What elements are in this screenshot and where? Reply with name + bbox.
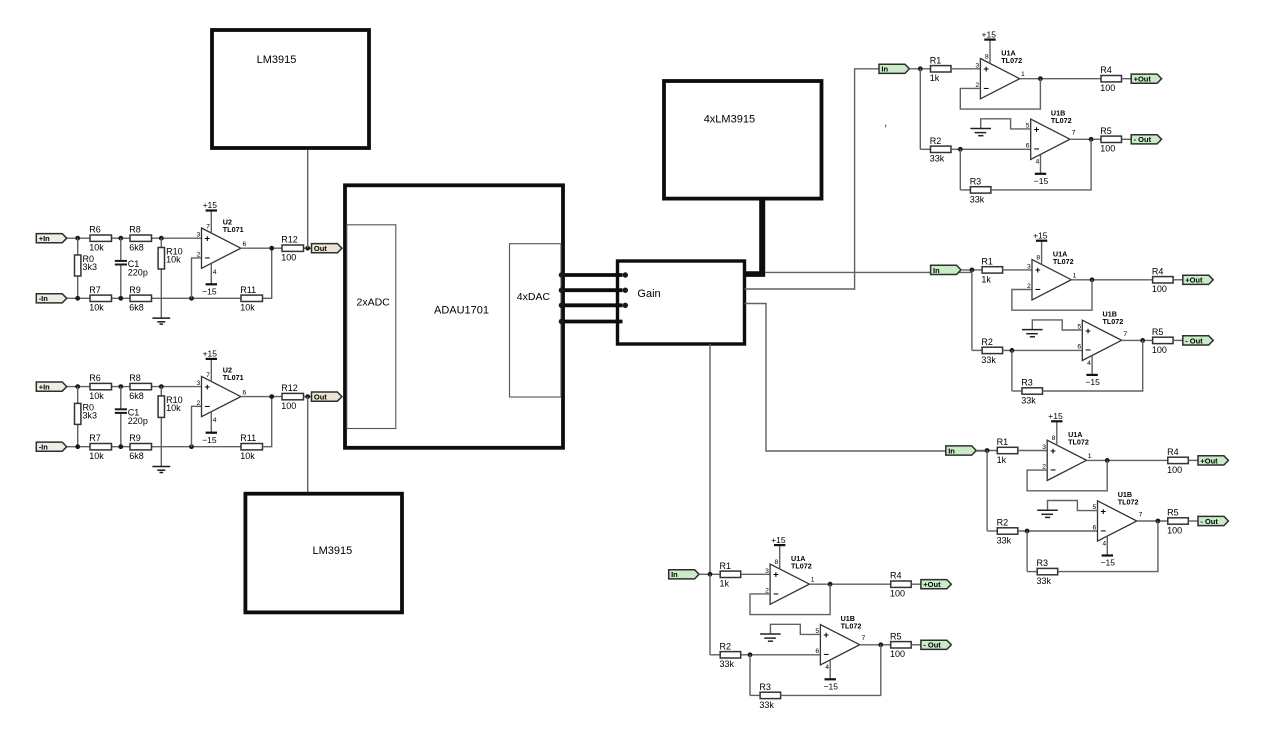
ground (output stage 2) bbox=[1032, 320, 1082, 330]
wire feedback (input stage 1) bbox=[263, 248, 272, 298]
svg-text:+15: +15 bbox=[1048, 411, 1063, 421]
wire DAC bus 4 bbox=[561, 320, 622, 324]
svg-text:3k3: 3k3 bbox=[83, 411, 98, 421]
svg-text:+: + bbox=[1085, 326, 1091, 337]
wire R4 to +Out (output stage 2) bbox=[1173, 279, 1183, 281]
svg-text:- Out: - Out bbox=[923, 641, 941, 650]
svg-text:33k: 33k bbox=[981, 355, 996, 365]
resistor R1 1k (output stage 4) bbox=[720, 571, 741, 577]
svg-text:R11: R11 bbox=[240, 285, 256, 295]
svg-text:-In: -In bbox=[39, 443, 49, 452]
svg-text:In: In bbox=[881, 65, 888, 74]
svg-text:TL072: TL072 bbox=[1118, 498, 1139, 507]
svg-text:3: 3 bbox=[975, 62, 979, 69]
pin 4 -15 supply (output stage 2) bbox=[1091, 356, 1093, 375]
block LM3915 (top) bbox=[212, 30, 369, 148]
svg-text:7: 7 bbox=[1123, 331, 1127, 338]
wire U1A output (output stage 4) bbox=[809, 583, 890, 585]
node R8-R10 junction (input stage 2) bbox=[159, 384, 164, 389]
svg-text:7: 7 bbox=[1139, 511, 1143, 518]
wire R1 to pin3 (output stage 3) bbox=[1018, 450, 1047, 452]
wire Gain to stage 2 In bbox=[765, 271, 972, 273]
wire U1A output (output stage 3) bbox=[1087, 459, 1168, 461]
node U1B output junction (output stage 4) bbox=[878, 642, 883, 647]
node feedback junction (input stage 2) bbox=[189, 444, 194, 449]
resistor R6 10k (input stage 2) bbox=[90, 383, 112, 389]
svg-text:In: In bbox=[948, 446, 955, 455]
svg-text:+15: +15 bbox=[982, 29, 997, 39]
pin 8 +15 supply (output stage 4) bbox=[779, 545, 781, 569]
svg-text:TL072: TL072 bbox=[1001, 56, 1022, 65]
wire LM3915 bottom link bbox=[307, 397, 309, 494]
wire In to R1 (output stage 2) bbox=[961, 269, 982, 271]
node R2 junction (output stage 1) bbox=[958, 147, 963, 152]
svg-text:−: − bbox=[1050, 465, 1056, 476]
svg-text:1: 1 bbox=[811, 577, 815, 584]
wire R3 feedback (output stage 4) bbox=[781, 645, 881, 696]
svg-text:R6: R6 bbox=[89, 373, 101, 383]
svg-text:−: − bbox=[1085, 345, 1091, 356]
svg-text:10k: 10k bbox=[89, 391, 104, 401]
wire R5 to -Out (output stage 1) bbox=[1122, 138, 1132, 140]
resistor R6 10k (input stage 1) bbox=[90, 235, 112, 241]
svg-text:R5: R5 bbox=[1167, 508, 1179, 518]
svg-text:−15: −15 bbox=[1085, 377, 1100, 387]
svg-text:−: − bbox=[823, 650, 829, 661]
wire R4 to +Out (output stage 4) bbox=[911, 583, 921, 585]
svg-text:+: + bbox=[205, 382, 211, 393]
pin 8 +15 supply (output stage 3) bbox=[1056, 421, 1058, 445]
svg-text:In: In bbox=[933, 266, 940, 275]
resistor R10 10k (input stage 2) bbox=[160, 387, 162, 396]
block 4xLM3915 bbox=[664, 81, 822, 199]
wire In to R2 (output stage 1) bbox=[919, 69, 921, 150]
svg-text:+: + bbox=[1050, 446, 1056, 457]
svg-text:+15: +15 bbox=[771, 535, 786, 545]
wire inverting input (input stage 2) bbox=[192, 406, 202, 446]
pin 4 -15 supply (output stage 1) bbox=[1040, 155, 1042, 174]
connector In (output stage 1) bbox=[879, 64, 909, 73]
svg-text:33k: 33k bbox=[930, 154, 945, 164]
wire R1 to pin3 (output stage 2) bbox=[1003, 269, 1032, 271]
svg-text:3: 3 bbox=[197, 232, 201, 239]
connector Out (input stage 1) bbox=[312, 244, 342, 253]
resistor R0 3k3 (input stage 1) bbox=[77, 238, 79, 255]
pin 7 +15 supply (input stage 2) bbox=[210, 359, 212, 382]
wire DAC bus 1 bbox=[561, 273, 622, 277]
node R2 junction (output stage 3) bbox=[1025, 529, 1030, 534]
connector -In (input stage 2) bbox=[36, 442, 66, 451]
wire R3 feedback (output stage 2) bbox=[1043, 340, 1143, 391]
svg-text:Out: Out bbox=[314, 244, 327, 253]
node +In junction (input stage 1) bbox=[75, 236, 80, 241]
node In junction (output stage 4) bbox=[708, 572, 713, 577]
wire U1A feedback (output stage 2) bbox=[1012, 280, 1092, 310]
svg-text:R7: R7 bbox=[89, 285, 101, 295]
op-amp U1B TL072 (output stage 1) bbox=[1031, 119, 1070, 159]
pin 4 -15 supply (input stage 2) bbox=[210, 412, 212, 433]
wire R5 to -Out (output stage 4) bbox=[911, 644, 921, 646]
resistor R11 10k (input stage 1) bbox=[241, 295, 263, 301]
resistor R10 10k (input stage 1) bbox=[160, 238, 162, 247]
wire inverting input (input stage 1) bbox=[192, 258, 202, 298]
wire output (input stage 1) bbox=[241, 247, 282, 249]
wire U1A output (output stage 1) bbox=[1020, 78, 1101, 80]
svg-text:100: 100 bbox=[281, 401, 296, 411]
resistor R7 10k (input stage 1) bbox=[90, 295, 112, 301]
svg-text:+: + bbox=[773, 570, 779, 581]
svg-text:R1: R1 bbox=[930, 55, 942, 65]
op-amp U2 TL071 (input stage 1) bbox=[202, 228, 241, 268]
svg-text:+: + bbox=[205, 234, 211, 245]
svg-text:R2: R2 bbox=[720, 641, 732, 651]
node R6-R8 junction (input stage 2) bbox=[118, 384, 123, 389]
node In junction (output stage 1) bbox=[918, 66, 923, 71]
svg-text:R4: R4 bbox=[1100, 65, 1112, 75]
svg-text:3: 3 bbox=[1027, 263, 1031, 270]
svg-text:TL071: TL071 bbox=[223, 373, 244, 382]
wire R2 to pin6 (output stage 1) bbox=[951, 148, 1031, 150]
svg-text:33k: 33k bbox=[759, 700, 774, 710]
svg-text:6: 6 bbox=[815, 648, 819, 655]
svg-text:+: + bbox=[823, 630, 829, 641]
wire -In rail (input stage 2) bbox=[66, 446, 90, 448]
wire In to R1 (output stage 1) bbox=[909, 68, 930, 70]
svg-text:−: − bbox=[773, 589, 779, 600]
connector In (output stage 2) bbox=[931, 265, 961, 274]
svg-text:LM3915: LM3915 bbox=[313, 545, 353, 557]
pin 8 +15 supply (output stage 1) bbox=[989, 40, 991, 64]
resistor R5 100 (output stage 3) bbox=[1168, 518, 1189, 524]
wire Gain to stage 3 In bbox=[745, 304, 988, 452]
wire U1A feedback (output stage 1) bbox=[960, 79, 1040, 109]
resistor R11 10k (input stage 2) bbox=[241, 444, 263, 450]
svg-text:R1: R1 bbox=[997, 437, 1009, 447]
connector -In (input stage 1) bbox=[36, 294, 66, 303]
svg-text:−15: −15 bbox=[1034, 176, 1049, 186]
pin 8 +15 supply (output stage 2) bbox=[1041, 241, 1043, 265]
wire R2 to R3 (output stage 3) bbox=[1026, 531, 1028, 572]
resistor R2 33k (output stage 1) bbox=[920, 148, 930, 150]
svg-text:R2: R2 bbox=[981, 337, 993, 347]
ground (output stage 1) bbox=[981, 119, 1031, 129]
svg-text:6k8: 6k8 bbox=[129, 391, 144, 401]
svg-text:3: 3 bbox=[197, 380, 201, 387]
svg-text:7: 7 bbox=[206, 372, 210, 379]
svg-text:100: 100 bbox=[890, 589, 905, 599]
wire R1 to pin3 (output stage 4) bbox=[741, 573, 770, 575]
node R8-R10 junction (input stage 1) bbox=[159, 236, 164, 241]
svg-text:+Out: +Out bbox=[1134, 75, 1152, 84]
wire Gain to stage 1 In bbox=[745, 69, 882, 289]
pin 4 -15 supply (output stage 3) bbox=[1106, 536, 1108, 555]
resistor R12 100 (input stage 2) bbox=[282, 393, 304, 399]
svg-text:100: 100 bbox=[1152, 345, 1167, 355]
svg-text:TL072: TL072 bbox=[1068, 438, 1089, 447]
svg-text:4: 4 bbox=[825, 664, 829, 671]
svg-text:+In: +In bbox=[39, 234, 50, 243]
node In junction (output stage 2) bbox=[970, 268, 975, 273]
wire U1B output (output stage 1) bbox=[1070, 138, 1101, 140]
svg-text:+: + bbox=[1034, 125, 1040, 136]
resistor R3 33k (output stage 2) bbox=[1022, 388, 1043, 394]
wire output (input stage 2) bbox=[241, 396, 282, 398]
svg-text:R8: R8 bbox=[129, 225, 141, 235]
svg-text:TL072: TL072 bbox=[1103, 317, 1124, 326]
svg-text:In: In bbox=[671, 570, 678, 579]
svg-text:5: 5 bbox=[1026, 122, 1030, 129]
svg-text:R3: R3 bbox=[1021, 378, 1033, 388]
resistor R5 100 (output stage 4) bbox=[891, 642, 912, 648]
connector Out (input stage 2) bbox=[312, 392, 342, 401]
wire R4 to +Out (output stage 3) bbox=[1188, 459, 1198, 461]
svg-text:10k: 10k bbox=[89, 303, 104, 313]
svg-text:100: 100 bbox=[1100, 144, 1115, 154]
svg-text:4xDAC: 4xDAC bbox=[517, 291, 551, 303]
resistor R4 100 (output stage 4) bbox=[891, 581, 912, 587]
resistor R2 33k (output stage 4) bbox=[710, 654, 720, 656]
wire R3 feedback (output stage 1) bbox=[991, 139, 1091, 190]
svg-text:ADAU1701: ADAU1701 bbox=[434, 305, 489, 317]
svg-text:+15: +15 bbox=[203, 348, 218, 358]
ground (output stage 3) bbox=[1048, 501, 1098, 511]
node output junction (input stage 2) bbox=[269, 394, 274, 399]
svg-text:R12: R12 bbox=[281, 383, 298, 393]
svg-text:8: 8 bbox=[1052, 435, 1056, 442]
wire R2 to pin6 (output stage 4) bbox=[741, 654, 821, 656]
svg-text:R3: R3 bbox=[970, 176, 982, 186]
wire U1B output (output stage 4) bbox=[860, 644, 891, 646]
svg-text:−: − bbox=[205, 401, 211, 412]
svg-text:+Out: +Out bbox=[1185, 276, 1203, 285]
svg-text:R1: R1 bbox=[981, 256, 993, 266]
node Out junction (input stage 1) bbox=[305, 246, 310, 251]
resistor R1 1k (output stage 3) bbox=[997, 447, 1018, 453]
connector +Out (output stage 4) bbox=[921, 580, 951, 589]
capacitor C1 220p (input stage 2) bbox=[120, 387, 122, 409]
wire -In rail (input stage 1) bbox=[66, 297, 90, 299]
resistor R2 33k (output stage 2) bbox=[972, 349, 982, 351]
svg-text:100: 100 bbox=[1100, 83, 1115, 93]
wire +In rail (input stage 2) bbox=[66, 386, 90, 388]
wire R5 to -Out (output stage 3) bbox=[1188, 520, 1198, 522]
svg-text:220p: 220p bbox=[128, 416, 148, 426]
connector +Out (output stage 3) bbox=[1198, 456, 1228, 465]
wire R2 to R3 (output stage 1) bbox=[959, 149, 961, 190]
wire DAC bus 2 bbox=[561, 288, 622, 292]
node -In junction (input stage 2) bbox=[75, 444, 80, 449]
svg-text:−: − bbox=[1034, 144, 1040, 155]
svg-text:10k: 10k bbox=[89, 451, 104, 461]
node Out junction (input stage 2) bbox=[305, 394, 310, 399]
svg-text:5: 5 bbox=[815, 628, 819, 635]
node R2 junction (output stage 4) bbox=[748, 652, 753, 657]
svg-text:33k: 33k bbox=[970, 194, 985, 204]
svg-text:6k8: 6k8 bbox=[129, 243, 144, 253]
node U1B output junction (output stage 1) bbox=[1089, 137, 1094, 142]
svg-text:TL072: TL072 bbox=[841, 621, 862, 630]
node U1A output junction (output stage 1) bbox=[1038, 76, 1043, 81]
svg-text:−15: −15 bbox=[824, 681, 839, 691]
svg-text:TL071: TL071 bbox=[223, 225, 244, 234]
node U1B output junction (output stage 3) bbox=[1156, 519, 1161, 524]
svg-text:5: 5 bbox=[1077, 323, 1081, 330]
connector +In (input stage 2) bbox=[36, 382, 66, 391]
svg-text:1k: 1k bbox=[720, 579, 730, 589]
resistor R8 6k8 (input stage 2) bbox=[130, 383, 152, 389]
node -In junction (input stage 1) bbox=[75, 296, 80, 301]
resistor R0 3k3 (input stage 2) bbox=[77, 387, 79, 404]
svg-text:100: 100 bbox=[890, 649, 905, 659]
resistor R1 1k (output stage 1) bbox=[931, 66, 952, 72]
svg-text:−: − bbox=[983, 84, 989, 95]
svg-text:R5: R5 bbox=[890, 631, 902, 641]
svg-text:6: 6 bbox=[243, 241, 247, 248]
svg-text:1: 1 bbox=[1021, 71, 1025, 78]
resistor R4 100 (output stage 3) bbox=[1168, 457, 1189, 463]
svg-text:10k: 10k bbox=[89, 243, 104, 253]
wire R2 to R3 (output stage 4) bbox=[749, 655, 751, 696]
op-amp U1A TL072 (output stage 2) bbox=[1032, 260, 1071, 300]
svg-text:R2: R2 bbox=[930, 136, 942, 146]
svg-text:5: 5 bbox=[1093, 504, 1097, 511]
svg-text:+: + bbox=[1101, 506, 1107, 517]
svg-text:R4: R4 bbox=[890, 571, 902, 581]
pin 4 -15 supply (output stage 4) bbox=[829, 660, 831, 679]
svg-text:Out: Out bbox=[314, 393, 327, 402]
wire Gain to stage 4 In bbox=[709, 344, 711, 574]
op-amp U1B TL072 (output stage 3) bbox=[1098, 501, 1137, 541]
node U1A output junction (output stage 2) bbox=[1090, 277, 1095, 282]
node U1A output junction (output stage 3) bbox=[1105, 458, 1110, 463]
op-amp U1A TL072 (output stage 4) bbox=[770, 564, 809, 604]
svg-text:- Out: - Out bbox=[1185, 336, 1203, 345]
op-amp U1B TL072 (output stage 4) bbox=[820, 625, 859, 665]
wire In to R1 (output stage 4) bbox=[699, 573, 720, 575]
svg-text:+: + bbox=[1035, 265, 1041, 276]
svg-text:4: 4 bbox=[1087, 360, 1091, 367]
pin 7 +15 supply (input stage 1) bbox=[210, 211, 212, 234]
wire U1A feedback (output stage 3) bbox=[1027, 460, 1107, 490]
wire U1B output (output stage 2) bbox=[1122, 339, 1153, 341]
svg-text:R1: R1 bbox=[720, 561, 732, 571]
connector -Out (output stage 1) bbox=[1131, 135, 1161, 144]
svg-text:6k8: 6k8 bbox=[129, 303, 144, 313]
node R6-R8 junction (input stage 1) bbox=[118, 236, 123, 241]
svg-text:R11: R11 bbox=[240, 433, 256, 443]
svg-text:6: 6 bbox=[1077, 344, 1081, 351]
svg-text:3: 3 bbox=[765, 568, 769, 575]
svg-text:−: − bbox=[205, 253, 211, 264]
svg-text:10k: 10k bbox=[240, 451, 255, 461]
svg-text:R3: R3 bbox=[759, 682, 771, 692]
svg-text:10k: 10k bbox=[166, 255, 181, 265]
svg-text:+Out: +Out bbox=[923, 580, 941, 589]
node R7-R9 junction (input stage 2) bbox=[118, 444, 123, 449]
wire DAC bus 3 bbox=[561, 303, 622, 307]
svg-text:2: 2 bbox=[197, 400, 201, 407]
connector -Out (output stage 3) bbox=[1198, 516, 1228, 525]
resistor R1 1k (output stage 2) bbox=[982, 267, 1003, 273]
svg-text:100: 100 bbox=[1167, 525, 1182, 535]
ground (input stage 2) bbox=[160, 447, 162, 467]
wire In to R1 (output stage 3) bbox=[976, 450, 997, 452]
svg-text:R5: R5 bbox=[1152, 327, 1164, 337]
block 2xADC bbox=[347, 225, 396, 429]
op-amp U2 TL071 (input stage 2) bbox=[202, 376, 241, 416]
block ADAU1701 bbox=[345, 185, 563, 448]
block LM3915 (bottom) bbox=[245, 494, 402, 613]
resistor R7 10k (input stage 2) bbox=[90, 444, 112, 450]
svg-text:R2: R2 bbox=[997, 518, 1009, 528]
svg-text:TL072: TL072 bbox=[1053, 257, 1074, 266]
resistor R3 33k (output stage 4) bbox=[760, 692, 781, 698]
svg-text:10k: 10k bbox=[166, 403, 181, 413]
svg-text:8: 8 bbox=[985, 53, 989, 60]
node feedback junction (input stage 1) bbox=[189, 296, 194, 301]
svg-text:LM3915: LM3915 bbox=[257, 54, 297, 66]
resistor R8 6k8 (input stage 1) bbox=[130, 235, 152, 241]
wire R2 to pin6 (output stage 3) bbox=[1018, 530, 1098, 532]
block Gain bbox=[618, 261, 745, 344]
svg-text:+15: +15 bbox=[203, 200, 218, 210]
svg-text:6k8: 6k8 bbox=[129, 451, 144, 461]
op-amp U1A TL072 (output stage 1) bbox=[980, 59, 1019, 99]
svg-text:3: 3 bbox=[1042, 444, 1046, 451]
svg-text:R3: R3 bbox=[1037, 558, 1049, 568]
resistor R9 6k8 (input stage 2) bbox=[130, 444, 152, 450]
svg-text:R4: R4 bbox=[1152, 266, 1164, 276]
resistor R12 100 (input stage 1) bbox=[282, 245, 304, 251]
wire R2 to pin6 (output stage 2) bbox=[1003, 349, 1083, 351]
svg-text:R9: R9 bbox=[129, 433, 141, 443]
resistor R4 100 (output stage 2) bbox=[1153, 277, 1174, 283]
svg-text:7: 7 bbox=[206, 224, 210, 231]
svg-text:+In: +In bbox=[39, 383, 50, 392]
svg-text:100: 100 bbox=[1152, 284, 1167, 294]
connector -Out (output stage 2) bbox=[1183, 336, 1213, 345]
node U1A output junction (output stage 4) bbox=[828, 582, 833, 587]
svg-text:2xADC: 2xADC bbox=[357, 296, 391, 308]
connector In (output stage 3) bbox=[946, 446, 976, 455]
svg-text:R7: R7 bbox=[89, 433, 101, 443]
svg-text:6: 6 bbox=[1026, 143, 1030, 150]
wire R5 to -Out (output stage 2) bbox=[1173, 339, 1183, 341]
svg-text:R12: R12 bbox=[281, 235, 298, 245]
svg-text:1k: 1k bbox=[981, 274, 991, 284]
svg-text:33k: 33k bbox=[1037, 576, 1052, 586]
svg-text:Gain: Gain bbox=[637, 288, 660, 300]
svg-text:R6: R6 bbox=[89, 225, 101, 235]
connector -Out (output stage 4) bbox=[921, 640, 951, 649]
svg-text:+: + bbox=[983, 64, 989, 75]
wire U1B output (output stage 3) bbox=[1137, 520, 1168, 522]
svg-text:220p: 220p bbox=[128, 267, 148, 277]
node output junction (input stage 1) bbox=[269, 246, 274, 251]
wire LM3915 top link bbox=[307, 148, 309, 248]
wire R2 to R3 (output stage 2) bbox=[1011, 350, 1013, 391]
ground (output stage 4) bbox=[770, 624, 820, 634]
node R7-R9 junction (input stage 1) bbox=[118, 296, 123, 301]
svg-text:2: 2 bbox=[197, 251, 201, 258]
svg-text:−15: −15 bbox=[1101, 558, 1116, 568]
svg-text:−15: −15 bbox=[202, 435, 217, 445]
node +In junction (input stage 2) bbox=[75, 384, 80, 389]
resistor R3 33k (output stage 3) bbox=[1037, 568, 1058, 574]
connector +In (input stage 1) bbox=[36, 234, 66, 243]
op-amp U1A TL072 (output stage 3) bbox=[1047, 440, 1086, 480]
svg-text:1k: 1k bbox=[997, 455, 1007, 465]
